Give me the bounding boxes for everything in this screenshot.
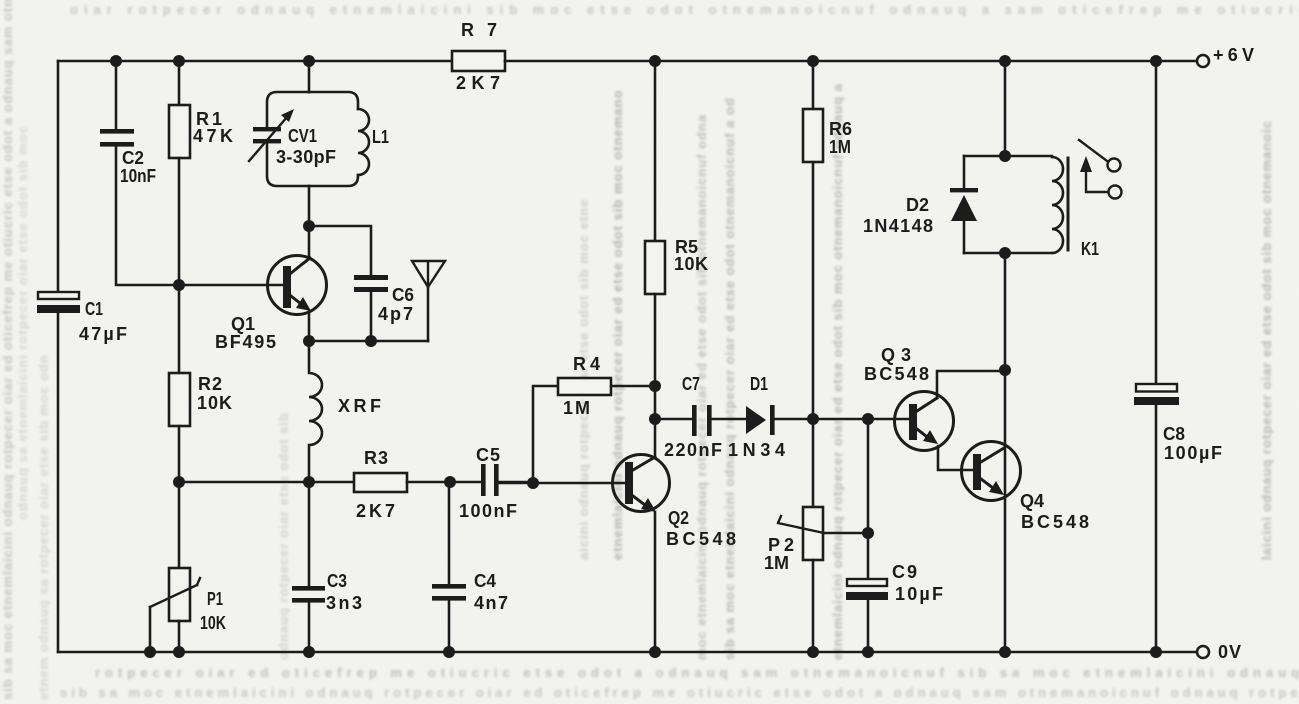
inductor XRF [309, 341, 322, 482]
node P1 bottom on rail [173, 646, 185, 658]
svg-text:etnem odnauq sa rotpecer oiar: etnem odnauq sa rotpecer oiar etse sib m… [36, 354, 51, 700]
wire Q2 emitter to rail [654, 512, 657, 652]
svg-text:D2: D2 [906, 195, 929, 215]
capacitor C3 [292, 586, 325, 603]
node P1 wiper on rail [144, 646, 156, 658]
node bias divider at y482 [173, 476, 185, 488]
potentiometer P2 wiper arrow [778, 516, 824, 533]
svg-text:2K7: 2K7 [456, 73, 500, 93]
svg-text:Q2: Q2 [668, 508, 689, 528]
svg-text:R2: R2 [198, 374, 222, 394]
svg-text:47µF: 47µF [79, 324, 127, 344]
wire bottom 0V rail [58, 651, 1197, 654]
node R4/collector [649, 380, 661, 392]
wire XRF node to R3 [309, 481, 354, 484]
wire bias row from R-chain to XRF node [179, 481, 309, 484]
wire antenna lead up [427, 287, 430, 341]
wire C7 to D1 [711, 418, 746, 421]
wire R1 top lead [178, 61, 181, 105]
node Q4 emitter on rail [999, 646, 1011, 658]
node C9 on rail [862, 646, 874, 658]
wire R4 left leg [533, 386, 558, 482]
wire C7 left lead [655, 418, 692, 421]
diode D1 [746, 405, 775, 435]
svg-text:D1: D1 [750, 374, 768, 394]
svg-text:odnauq sa etnemlaicini rotpece: odnauq sa etnemlaicini rotpecer oiar ets… [15, 125, 30, 520]
wire D1 to Q3 base [774, 418, 909, 421]
svg-text:1M: 1M [764, 553, 789, 573]
resistor R4 [558, 378, 611, 395]
svg-text:C6: C6 [392, 285, 414, 305]
svg-text:47K: 47K [193, 126, 233, 146]
potentiometer P1 wiper arrow [150, 578, 200, 607]
variable capacitor CV1 arrow [249, 109, 294, 161]
wire node to C6 top [309, 226, 371, 275]
node C8 on rail [1150, 646, 1162, 658]
svg-text:3-30pF: 3-30pF [276, 147, 336, 167]
relay contact upper [1108, 159, 1121, 172]
svg-text:BC548: BC548 [864, 364, 929, 384]
wire R2 bottom to P1 top [178, 426, 181, 568]
relay core bar [1067, 158, 1070, 250]
diode D2 [950, 188, 978, 221]
svg-text:etnemlaicini odnauq rotpecer o: etnemlaicini odnauq rotpecer oiar ed ets… [830, 83, 845, 660]
svg-text:XRF: XRF [338, 396, 381, 416]
capacitor C6 [354, 275, 388, 292]
svg-text:1N4148: 1N4148 [863, 216, 933, 236]
node top rail at relay [999, 55, 1011, 67]
wire top supply rail right segment [505, 60, 1197, 63]
wire C4 bottom lead [448, 601, 451, 652]
node top rail at R5 [649, 55, 661, 67]
node P2 wiper / C9 [862, 527, 874, 539]
inductor L1 [358, 109, 369, 175]
svg-text:BC548: BC548 [1021, 512, 1089, 532]
wire C6 bottom lead [370, 292, 373, 341]
svg-text:10K: 10K [674, 254, 708, 274]
wire C2 bottom lead to Q1 base [116, 147, 283, 285]
svg-text:+6V: +6V [1213, 45, 1254, 65]
svg-text:C3: C3 [327, 571, 347, 591]
relay coil K1 [1052, 157, 1063, 253]
node R4 tap [527, 477, 539, 489]
node top rail at C2 [110, 55, 122, 67]
wire relay bottom to Q3/Q4 collectors and rail [1004, 253, 1007, 652]
node detector line at C9 branch [862, 413, 874, 425]
wire left vertical from +6V rail to C1 [57, 61, 60, 292]
relay actuation arrow [1080, 156, 1108, 192]
transistor Q3 [895, 392, 954, 451]
svg-text:C2: C2 [122, 148, 144, 168]
wire P2 wiper to C9 line [823, 532, 868, 535]
wire C9 bottom lead [867, 600, 870, 652]
node emitter line at C6 [365, 335, 377, 347]
node top rail at C8 [1150, 55, 1162, 67]
wire C3 top lead [308, 482, 311, 586]
svg-text:laicini odnauq rotpecer oiar e: laicini odnauq rotpecer oiar ed etse odo… [1259, 120, 1274, 560]
wire collector node down to C7 node and Q2 [654, 386, 657, 457]
node Q3 collector join [999, 364, 1011, 376]
wire C5 to Q2 base [499, 482, 625, 483]
wire tank top lead [308, 61, 311, 92]
wire R4 to collector node [611, 385, 655, 388]
svg-text:Q4: Q4 [1020, 491, 1044, 511]
wire node to P2 top [812, 419, 815, 507]
capacitor C5 [481, 464, 499, 496]
svg-text:C5: C5 [476, 445, 500, 465]
svg-text:10nF: 10nF [120, 166, 156, 186]
capacitor C2 [100, 129, 134, 147]
node top rail at tank [303, 55, 315, 67]
wire Q3 emitter to Q4 base [938, 446, 973, 470]
wire C8 bottom lead [1155, 405, 1158, 652]
wire C2 top lead [115, 61, 118, 129]
node Q2 emitter on rail [649, 646, 661, 658]
tank loop right side top/bottom stubs [309, 92, 358, 186]
svg-text:3n3: 3n3 [326, 593, 362, 613]
svg-text:CV1: CV1 [288, 126, 317, 146]
svg-text:K1: K1 [1081, 239, 1099, 259]
node collector/C6 [303, 220, 315, 232]
capacitor C4 [432, 584, 466, 601]
terminal 0V [1197, 646, 1209, 658]
svg-text:C8: C8 [1163, 424, 1185, 444]
wire left vertical from C1 to 0V rail [57, 313, 60, 652]
svg-text:4n7: 4n7 [474, 593, 508, 613]
svg-text:10K: 10K [197, 393, 232, 413]
capacitor C7 [692, 405, 712, 436]
wire R5 bottom to node [654, 294, 657, 386]
node C3 on rail [303, 646, 315, 658]
wire P1 wiper to 0V [149, 607, 152, 652]
node top rail at R1 [173, 55, 185, 67]
svg-text:4p7: 4p7 [378, 304, 413, 324]
node C4 on rail [443, 646, 455, 658]
capacitor C8 (electrolytic) [1134, 384, 1179, 405]
node relay top [999, 150, 1011, 162]
node XRF bottom [303, 476, 315, 488]
node emitter at XRF [303, 335, 315, 347]
wire P1 bottom lead [178, 621, 181, 652]
resistor R2 [169, 373, 190, 426]
capacitor C1 (electrolytic) [37, 292, 80, 313]
node P2 bottom on rail [807, 646, 819, 658]
svg-text:odnauq rotpecer oiar etse odot: odnauq rotpecer oiar etse odot sib [276, 412, 291, 660]
svg-text:C9: C9 [892, 562, 917, 582]
svg-text:C1: C1 [85, 299, 103, 319]
transistor Q2 [613, 455, 670, 513]
svg-text:1M: 1M [829, 137, 851, 157]
svg-text:C7: C7 [682, 374, 700, 394]
wire relay bottom cross [964, 252, 1052, 255]
wire Q3 collector to supply node [937, 371, 1005, 398]
wire D2 top lead [963, 156, 966, 188]
resistor R5 [645, 241, 665, 294]
transistor Q4 [962, 442, 1021, 501]
resistor R7 [452, 51, 505, 71]
svg-text:Q1: Q1 [231, 314, 255, 334]
wire C9 branch vertical [867, 419, 870, 579]
node R3/C4/C5 [444, 476, 456, 488]
transistor Q1 [268, 256, 327, 315]
wire emitter line to antenna [309, 340, 428, 343]
wire R6 bottom to node [812, 162, 815, 419]
potentiometer P1 body [169, 568, 190, 621]
wire relay top cross [964, 155, 1052, 158]
svg-text:P1: P1 [207, 589, 223, 609]
node top rail at R6 [807, 55, 819, 67]
resistor R3 [354, 473, 407, 492]
wire C3 bottom lead [308, 603, 311, 652]
node D1/R6/P2 [807, 413, 819, 425]
relay switch blade [1079, 140, 1107, 161]
antenna symbol [412, 261, 445, 287]
resistor R1 [169, 105, 190, 158]
wire D2 bottom lead [963, 220, 966, 253]
wire relay branch upper [1004, 61, 1007, 156]
wire P2 bottom lead [812, 560, 815, 652]
svg-text:10K: 10K [200, 613, 226, 633]
svg-text:C4: C4 [474, 571, 496, 591]
variable capacitor CV1 plates [253, 127, 281, 143]
svg-text:R6: R6 [829, 119, 852, 139]
svg-text:sib sa moc etnemlaicini odnauq: sib sa moc etnemlaicini odnauq rotpecer … [722, 97, 737, 660]
wire Q1 emitter down [308, 312, 311, 341]
svg-text:100nF: 100nF [459, 501, 517, 521]
node relay bottom [999, 247, 1011, 259]
resistor R6 [803, 109, 823, 162]
tank loop left/top/bottom [267, 92, 309, 186]
wire Q1 collector up [308, 226, 311, 258]
wire R3 to C4/C5 node [407, 481, 481, 484]
svg-text:BF495: BF495 [215, 332, 276, 352]
svg-text:1M: 1M [563, 398, 590, 418]
svg-text:L1: L1 [372, 127, 389, 147]
wire top supply rail left segment [58, 60, 452, 63]
svg-text:10µF: 10µF [895, 584, 943, 604]
wire R6 top lead [812, 61, 815, 109]
wire R5 top lead [654, 61, 657, 241]
wire tank bottom to node [308, 186, 311, 226]
svg-text:BC548: BC548 [666, 529, 736, 549]
svg-text:sib sa moc etnemlaicini odnauq: sib sa moc etnemlaicini odnauq rotpecer … [0, 0, 15, 700]
node C7 tap [649, 413, 661, 425]
wire C4 top lead [448, 482, 451, 584]
capacitor C9 (electrolytic) [846, 579, 888, 600]
relay contact lower [1109, 186, 1122, 199]
svg-text:sib sa moc etnemlaicini odnauq: sib sa moc etnemlaicini odnauq rotpecer … [60, 685, 1299, 700]
svg-text:2K7: 2K7 [356, 501, 395, 521]
wire C8 top lead [1155, 61, 1158, 384]
svg-text:rotpecer oiar ed oticefrep me: rotpecer oiar ed oticefrep me otiucric e… [95, 665, 1299, 680]
potentiometer P2 body [803, 507, 823, 560]
svg-text:100µF: 100µF [1164, 443, 1222, 463]
svg-text:oiar rotpecer odnauq etnemlaic: oiar rotpecer odnauq etnemlaicini sib mo… [70, 2, 1299, 17]
svg-text:0V: 0V [1218, 642, 1241, 662]
node R1/R2 join base line [173, 279, 185, 291]
svg-text:220nF: 220nF [664, 440, 722, 460]
terminal +6V [1197, 55, 1209, 67]
wire R1 bottom to R2 top [178, 158, 181, 373]
svg-text:R3: R3 [364, 448, 388, 468]
